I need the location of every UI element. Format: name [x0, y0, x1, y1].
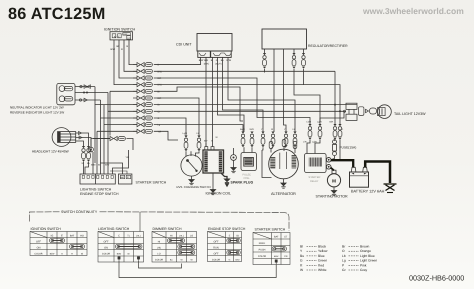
svg-text:Y/R: Y/R: [158, 130, 162, 133]
alternator right coil: [292, 155, 297, 168]
ignition switch SW1 body: [110, 32, 133, 40]
reverse changing switch body: [181, 155, 202, 176]
svg-text:Pink: Pink: [360, 263, 367, 267]
connector W/R: [250, 132, 254, 148]
svg-text:ALTERNATOR: ALTERNATOR: [271, 192, 296, 196]
svg-text:B/W: B/W: [236, 258, 240, 261]
lighting switch / engine stop switch body: [80, 174, 115, 184]
svg-text:B/Y: B/Y: [204, 140, 208, 143]
svg-text:G: G: [300, 259, 303, 263]
alternator body: [269, 149, 299, 179]
grommet feed wire: [233, 148, 235, 155]
ignition table continuity bar ON: [70, 244, 85, 249]
regulator connector 2: [292, 53, 296, 69]
svg-text:G: G: [342, 128, 344, 131]
svg-text:Bl: Bl: [300, 245, 303, 249]
svg-text:(B/R): (B/R): [204, 63, 209, 66]
svg-text:TAIL LIGHT 12V3W: TAIL LIGHT 12V3W: [394, 112, 426, 116]
ignition switch continuity table: [30, 232, 87, 256]
svg-text:OFF: OFF: [36, 240, 41, 243]
svg-text:Lg/R: Lg/R: [183, 132, 188, 135]
svg-text:G: G: [211, 140, 213, 143]
connector Y/G: [261, 132, 265, 148]
svg-text:O: O: [342, 249, 345, 253]
svg-text:Blue: Blue: [318, 254, 325, 258]
connector Y: [284, 132, 288, 148]
svg-text:C: C: [118, 234, 120, 237]
svg-text:STARTER: STARTER: [309, 176, 321, 179]
svg-text:(HL): (HL): [179, 234, 184, 237]
dimmer switch continuity table: [152, 232, 197, 263]
svg-text:REVERSE INDICATOR LIGHT 12V 3: REVERSE INDICATOR LIGHT 12V 3W: [10, 110, 64, 114]
engine grommet: [231, 155, 237, 161]
headlight connector 1: [82, 146, 86, 162]
svg-text:HI: HI: [158, 240, 161, 243]
svg-text:RUN: RUN: [213, 246, 219, 249]
svg-text:NEUTRAL INDICATOR LIGHT 12V 3: NEUTRAL INDICATOR LIGHT 12V 3W: [10, 106, 64, 110]
svg-text:Brown: Brown: [360, 245, 370, 249]
lighting table continuity bar ON: [116, 244, 143, 249]
starter switch continuity table: [253, 233, 290, 265]
starter table continuity bar PUSH: [272, 247, 287, 251]
lighting switch continuity table: [98, 232, 144, 263]
connector Lb left: [197, 136, 201, 152]
svg-text:COLOR: COLOR: [102, 253, 111, 256]
svg-text:Bl/Bl: Bl/Bl: [91, 164, 96, 167]
svg-text:M: M: [332, 178, 336, 183]
svg-text:Bl/W: Bl/W: [274, 255, 278, 258]
starting motor terminal: [332, 170, 336, 173]
regulator connector 3: [302, 53, 306, 69]
svg-text:W/R: W/R: [250, 128, 255, 131]
battery ground: [384, 184, 397, 193]
svg-text:Lb/R: Lb/R: [307, 121, 312, 124]
alternator ground: [281, 183, 286, 188]
svg-text:FUSE(15A): FUSE(15A): [340, 146, 357, 150]
svg-text:Gr: Gr: [158, 110, 161, 113]
connector Lb: [293, 132, 297, 148]
svg-text:White: White: [318, 268, 327, 272]
svg-text:BATTERY 12V 6AH: BATTERY 12V 6AH: [351, 189, 385, 193]
svg-text:HO: HO: [80, 234, 84, 237]
svg-text:REGULATOR/RECTIFIER: REGULATOR/RECTIFIER: [308, 44, 348, 48]
svg-text:IG: IG: [236, 234, 239, 237]
svg-text:B/R: B/R: [330, 121, 334, 124]
connector G b: [338, 124, 342, 140]
starter relay body: [305, 154, 327, 173]
svg-text:Yellow: Yellow: [318, 249, 328, 253]
svg-text:IGNITION SWITCH: IGNITION SWITCH: [31, 227, 62, 231]
switch continuity callout line: [30, 212, 290, 231]
svg-text:Light Green: Light Green: [360, 259, 377, 263]
connector Lb/R: [308, 124, 312, 140]
svg-text:SPARK PLUG: SPARK PLUG: [231, 180, 254, 184]
svg-text:IG: IG: [114, 35, 117, 38]
spark plug: [224, 179, 229, 186]
svg-text:IG: IG: [51, 234, 54, 237]
engine stop table continuity bar bottom: [227, 250, 241, 254]
starter relay coil: [309, 158, 322, 167]
svg-text:Lb: Lb: [342, 254, 346, 258]
ignition coil terminals: [205, 147, 208, 150]
svg-text:Lg/R: Lg/R: [317, 121, 322, 124]
connector W: [271, 132, 275, 148]
svg-text:Black: Black: [318, 245, 326, 249]
svg-text:LO: LO: [157, 252, 160, 255]
engine stop table continuity bar top: [227, 238, 241, 242]
thick battery negative cable: [365, 162, 390, 184]
CDI unit U1 body: [197, 34, 232, 58]
tail light junction dots: [334, 104, 336, 106]
harness drop wires to engine components: [339, 140, 341, 159]
svg-text:(Bu/Y): (Bu/Y): [215, 63, 221, 66]
connector column right extension wires: [154, 64, 201, 66]
dimmer table continuity bar HI: [168, 238, 185, 243]
alternator left coil: [270, 157, 275, 168]
reverse switch ground: [191, 176, 193, 179]
svg-text:ST: ST: [284, 236, 288, 239]
svg-text:Y/R: Y/R: [126, 156, 130, 159]
svg-text:www.3wheelerworld.com: www.3wheelerworld.com: [362, 6, 464, 16]
svg-text:Green: Green: [318, 259, 327, 263]
svg-text:HI: HI: [170, 234, 173, 237]
ignition table continuity bar OFF: [50, 238, 65, 243]
svg-text:STARTER SWITCH: STARTER SWITCH: [255, 228, 286, 232]
regulator output wires: [264, 49, 266, 53]
connector B/R a: [333, 124, 337, 140]
svg-text:Y/R: Y/R: [284, 255, 288, 258]
main harness connector column: [137, 63, 152, 67]
svg-text:COLOR: COLOR: [212, 258, 221, 261]
svg-text:COLOR: COLOR: [34, 252, 43, 255]
starter relay terminals: [326, 158, 331, 163]
starting motor ground: [333, 187, 335, 191]
connector Lg/R: [318, 124, 322, 140]
svg-text:FREE: FREE: [259, 242, 266, 245]
svg-text:LO: LO: [190, 234, 193, 237]
svg-text:0030Z-HB6-0000: 0030Z-HB6-0000: [409, 274, 464, 283]
pulse coil body: [241, 153, 256, 171]
svg-text:(HI): (HI): [157, 246, 161, 249]
ignition switch wires to connector column: [114, 40, 137, 85]
svg-text:CDI UNIT: CDI UNIT: [176, 43, 192, 47]
svg-text:ON: ON: [37, 246, 41, 249]
svg-text:OFF: OFF: [214, 252, 219, 255]
starting motor body: [327, 174, 340, 187]
svg-text:Bu: Bu: [300, 254, 304, 258]
neutral indicator bulb: [59, 86, 73, 92]
svg-text:G: G: [229, 258, 231, 261]
engine stop switch continuity table: [208, 232, 242, 262]
svg-text:IGNITION SWITCH: IGNITION SWITCH: [104, 28, 136, 32]
svg-text:Bu/R: Bu/R: [240, 128, 245, 131]
headlight shell: [52, 128, 71, 147]
headlight bulb body: [58, 132, 76, 143]
starter table pin: [275, 260, 277, 264]
svg-text:B/W: B/W: [111, 48, 116, 51]
lighting table pins: [118, 257, 120, 261]
battery body: [350, 172, 369, 187]
svg-text:Red: Red: [318, 263, 324, 267]
table link wire HL to dimmer: [139, 261, 182, 268]
alternator stator wires: [280, 152, 287, 169]
svg-text:G/W: G/W: [226, 59, 232, 62]
svg-text:LIGHTING SWITCH: LIGHTING SWITCH: [80, 188, 112, 192]
svg-text:HO: HO: [127, 37, 131, 40]
svg-text:Lg/R: Lg/R: [312, 141, 317, 144]
svg-text:B/R: B/R: [158, 77, 162, 80]
continuity callout stub to lighting table: [139, 212, 141, 232]
thick lead relay to motor: [331, 168, 335, 171]
dimmer table continuity bar mid: [178, 244, 195, 249]
svg-text:STARTER SWITCH: STARTER SWITCH: [136, 181, 167, 185]
svg-text:RELAY: RELAY: [310, 180, 319, 183]
handlebar starter switch body: [119, 174, 132, 184]
svg-text:SWITCH CONTINUITY: SWITCH CONTINUITY: [61, 210, 98, 214]
svg-text:RVS. CHANGING SWITCH: RVS. CHANGING SWITCH: [177, 185, 211, 189]
table link wire C to starter: [119, 261, 276, 278]
svg-text:ENGINE STOP SWITCH: ENGINE STOP SWITCH: [80, 192, 119, 196]
svg-text:Orange: Orange: [360, 249, 371, 253]
alternator side lead: [283, 179, 285, 183]
dimmer table continuity bar LO: [178, 250, 195, 255]
indicator wiring and connectors: [75, 86, 95, 88]
connector Bu/R: [241, 132, 245, 148]
tail light connector chain: [359, 107, 377, 116]
svg-text:OFF: OFF: [214, 240, 219, 243]
svg-text:Br: Br: [158, 104, 161, 107]
svg-text:IGNITION COIL: IGNITION COIL: [206, 191, 231, 195]
svg-text:G: G: [126, 45, 128, 48]
svg-text:Light Blue: Light Blue: [360, 254, 375, 258]
svg-text:Br: Br: [128, 253, 130, 256]
svg-text:B/W: B/W: [199, 59, 204, 62]
svg-text:ON: ON: [104, 246, 108, 249]
svg-text:86 ATC125M: 86 ATC125M: [8, 5, 106, 23]
svg-text:COIL: COIL: [244, 177, 251, 180]
svg-text:PULSE: PULSE: [243, 173, 252, 176]
reverse indicator bulb: [59, 96, 73, 102]
left harness wires: [110, 90, 137, 92]
svg-text:PUSH: PUSH: [259, 249, 266, 252]
neutral/reverse indicator lamp housing: [57, 83, 75, 104]
tail light bulb: [378, 105, 392, 119]
svg-text:G: G: [61, 252, 63, 255]
ignition coil ground: [212, 173, 214, 190]
svg-text:COLOR: COLOR: [258, 255, 267, 258]
thick battery positive cable: [331, 160, 353, 167]
svg-text:(HL): (HL): [136, 234, 141, 237]
svg-text:COLOR: COLOR: [155, 259, 164, 262]
battery terminals: [351, 167, 356, 172]
svg-text:ENGINE STOP SWITCH: ENGINE STOP SWITCH: [208, 227, 246, 231]
svg-text:BAT: BAT: [70, 234, 75, 237]
headlight wires: [76, 133, 89, 146]
regulator/rectifier body: [262, 29, 307, 49]
tail light bracket: [346, 103, 357, 120]
svg-text:LIGHTING SWITCH: LIGHTING SWITCH: [98, 227, 130, 231]
svg-text:B/R: B/R: [158, 97, 162, 100]
fuse 15A: [333, 140, 337, 156]
CDI pin wires: [155, 57, 201, 64]
svg-text:Br: Br: [98, 164, 100, 167]
svg-text:OFF: OFF: [104, 240, 109, 243]
headlight connector 2: [87, 146, 91, 162]
svg-text:BAT: BAT: [274, 236, 279, 239]
svg-text:Gray: Gray: [360, 268, 367, 272]
regulator connector 1: [263, 53, 267, 69]
svg-text:BAT: BAT: [123, 33, 128, 36]
lighting switch riser wires: [92, 152, 94, 174]
svg-text:Bl/Br: Bl/Br: [117, 253, 122, 256]
alternator input terminals: [269, 140, 297, 149]
svg-text:DIMMER SWITCH: DIMMER SWITCH: [153, 227, 182, 231]
svg-text:R: R: [121, 48, 123, 51]
connector Lg/R left: [184, 136, 188, 152]
svg-text:G: G: [158, 117, 160, 120]
svg-text:L/R: L/R: [303, 141, 307, 144]
headlight sub-harness connector: [110, 136, 125, 140]
spark plug lead: [221, 173, 227, 179]
svg-text:HEADLIGHT 12V 45/45W: HEADLIGHT 12V 45/45W: [32, 149, 69, 153]
grommet junction: [89, 147, 94, 152]
svg-text:STARTING MOTOR: STARTING MOTOR: [316, 194, 349, 198]
ignition coil body: [203, 150, 224, 173]
svg-text:Lg: Lg: [342, 259, 346, 263]
